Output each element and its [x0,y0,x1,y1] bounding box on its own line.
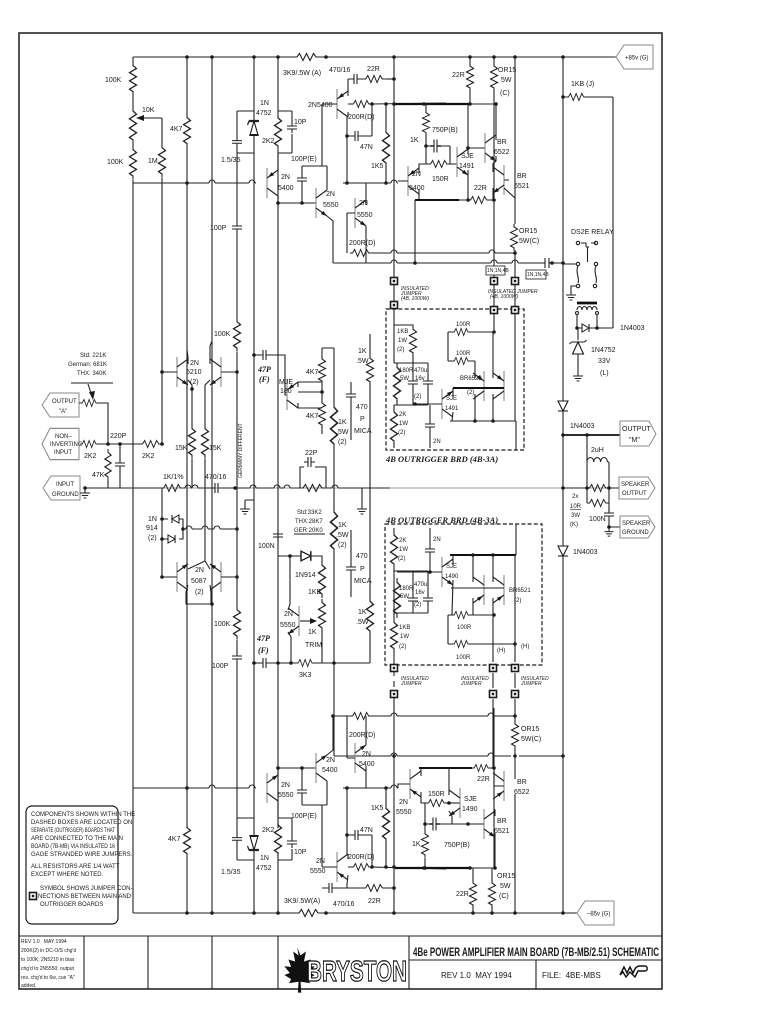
capacitor 470u 16v box1 a [408,377,418,388]
svg-text:5550: 5550 [357,212,373,219]
svg-text:GROUND: GROUND [52,492,79,498]
svg-text:1K: 1K [338,419,347,426]
svg-text:"M": "M" [629,437,640,444]
flag OUTPUT M [563,434,620,436]
resistor 1K .5W (2) lower x334 [331,507,338,554]
resistor 3K3 [296,660,315,667]
svg-text:470u: 470u [414,368,427,374]
drawing frame border [19,33,662,989]
svg-text:2K2: 2K2 [142,453,155,460]
trimpot 1K TRIM [319,599,326,631]
capacitor 100P upper mid [232,222,242,233]
svg-text:2K: 2K [399,538,406,544]
svg-text:100P(E): 100P(E) [291,156,317,163]
insulated jumper bottom b [492,644,494,768]
svg-text:2N: 2N [412,171,421,178]
svg-text:2N: 2N [195,567,204,574]
svg-text:200R(D): 200R(D) [349,732,375,739]
revision note text block [21,939,76,989]
svg-text:Std:33K2: Std:33K2 [297,510,322,516]
svg-text:200R(D): 200R(D) [348,114,374,121]
resistor 100R box2 b [452,641,471,648]
capacitor 2N box2 [425,545,435,556]
WP monogram logo [620,966,647,977]
svg-text:22P: 22P [305,450,318,457]
wire column x162 [161,118,163,577]
svg-text:BR6521: BR6521 [509,588,531,594]
resistor OR15 5W (C) first [493,57,495,104]
svg-text:MICA: MICA [354,578,372,585]
svg-text:2uH: 2uH [591,447,604,454]
transistor pair 2N5210 left [177,357,188,387]
svg-text:1K: 1K [358,609,367,616]
svg-text:4B OUTRIGGER BRD (4B-3A): 4B OUTRIGGER BRD (4B-3A) [385,515,498,525]
svg-text:1W: 1W [400,634,409,640]
svg-text:(C): (C) [500,90,510,97]
resistor 180R 5W box1 [394,325,428,363]
-85v bottom bus [133,912,577,914]
svg-text:P: P [360,566,365,573]
capacitor 47N [351,131,362,141]
rail to speaker rail [563,487,619,489]
transistor SJE1491 box1 [442,389,453,419]
capacitor 470/16 inline [211,483,222,493]
svg-text:5W(C): 5W(C) [519,238,539,245]
components note box [26,806,118,924]
capacitor 100N mid [273,530,283,541]
svg-text:P: P [360,416,365,423]
wire column x187 [186,57,188,913]
svg-text:470/16: 470/16 [205,474,227,481]
svg-text:2N: 2N [399,799,408,806]
bus junction dots bottom [185,911,189,915]
wire collector down + rail [278,196,316,203]
resistor 2K2 input [80,441,99,448]
svg-text:2N: 2N [362,751,371,758]
transistor Q 2N5400 right npn [408,166,419,196]
ground below zener [573,372,583,381]
svg-text:22R: 22R [368,898,381,905]
svg-text:BR: BR [497,818,507,825]
capacitor 470P MICA lower [346,563,356,574]
loop wire 1.5/35 zener box [237,111,254,160]
resistor 1KB 1W (2) box2 [393,613,395,668]
capacitor 47P (F) upper [259,350,270,360]
svg-text:OR15: OR15 [498,67,516,74]
svg-text:.5W: .5W [356,358,369,365]
svg-text:200K(2) in DC-O/S chg'd: 200K(2) in DC-O/S chg'd [21,948,76,954]
svg-text:5400: 5400 [409,185,425,192]
zener diode 1N4752 top [248,121,260,135]
svg-text:(2): (2) [467,390,474,396]
svg-text:(2): (2) [414,394,421,400]
wire emitter down [277,801,279,818]
svg-text:2N: 2N [284,611,293,618]
svg-text:2K: 2K [399,412,406,418]
capacitor 1.5/35 bottom [232,834,242,844]
ground speaker [605,528,614,536]
relay coil [577,302,597,305]
svg-text:OUTPUT: OUTPUT [622,426,652,433]
transistor Q 2N5400 bottom second [355,743,366,773]
svg-text:1.5/35: 1.5/35 [221,157,241,164]
svg-text:47N: 47N [360,827,373,834]
svg-text:220P: 220P [110,433,127,440]
svg-text:4K7: 4K7 [168,836,181,843]
ground mid b [357,505,367,514]
svg-text:(2): (2) [338,542,347,549]
svg-text:100K: 100K [214,621,231,628]
wire column x236 [236,153,238,818]
svg-text:1N4003: 1N4003 [570,423,595,430]
loop wires bottom zener box [237,811,254,860]
svg-text:10R: 10R [570,504,582,510]
svg-text:180R: 180R [399,586,414,592]
resistor 180R 5W box2 [394,578,401,618]
transistor Q 2N5550 first npn [316,188,327,218]
svg-text:INPUT: INPUT [54,450,72,456]
svg-text:10K: 10K [142,107,155,114]
relay rail [333,260,563,263]
resistor 4K7 bottom [184,824,191,857]
svg-text:5W: 5W [500,883,511,890]
svg-text:5087: 5087 [191,578,207,585]
resistor 1M [159,144,166,178]
svg-text:47P: 47P [257,365,271,374]
resistor 100R box2 a [452,612,471,619]
svg-text:180R: 180R [399,368,414,374]
svg-text:(2): (2) [399,644,406,650]
trimpot 10K [130,107,137,144]
svg-text:INPUT: INPUT [56,482,74,488]
thick base wire [453,387,504,389]
svg-text:4K7: 4K7 [170,126,183,133]
svg-text:470: 470 [356,404,368,411]
resistor 100K mid [234,318,241,352]
svg-text:3K9/.5W (A): 3K9/.5W (A) [283,70,321,77]
svg-text:BOARD (7B-MB) VIA INSULATED 16: BOARD (7B-MB) VIA INSULATED 16 [31,844,116,850]
base wires 2N5210 [162,371,237,373]
svg-text:5W(C): 5W(C) [521,736,541,743]
svg-text:1N: 1N [260,100,269,107]
svg-text:GROUND: GROUND [622,530,649,536]
title block top rule [19,935,662,937]
svg-text:10P: 10P [294,119,307,126]
svg-text:16v: 16v [415,376,425,382]
svg-text:3W: 3W [571,513,580,519]
tiny note box c [526,270,546,279]
svg-text:OUTPUT: OUTPUT [622,491,647,497]
dashed box outrigger board 1 [386,309,524,450]
resistor 15K right [202,425,209,459]
svg-text:SJE: SJE [446,396,457,402]
wire column x133 [132,57,134,913]
title block cell dividers [84,936,662,989]
svg-text:2N: 2N [281,782,290,789]
insulated jumper top a [393,263,395,325]
emitter node wires [188,380,210,425]
transistor Q BR6521 [493,165,504,195]
svg-text:6521: 6521 [514,183,530,190]
svg-text:BR: BR [517,173,527,180]
resistor OR15 5W(C) lower mid [512,721,519,749]
svg-text:BR: BR [517,779,527,786]
svg-text:100P: 100P [210,225,227,232]
dashed box outrigger board 2 [385,524,542,665]
svg-text:1KB: 1KB [397,329,408,335]
resistor 4K7 top [184,114,191,147]
svg-text:THX: 340K: THX: 340K [77,371,106,377]
svg-text:100N: 100N [589,516,606,523]
svg-text:2N5400: 2N5400 [308,102,333,109]
transistor SJE1490 box2 [442,557,453,587]
svg-text:(2): (2) [195,589,204,596]
svg-text:1K5: 1K5 [371,163,384,170]
svg-text:470/16: 470/16 [333,901,355,908]
svg-text:(L): (L) [600,370,609,377]
resistor 150R bottom [426,800,447,807]
svg-text:100K: 100K [107,159,124,166]
svg-text:1N914: 1N914 [295,572,316,579]
svg-text:SPEAKER: SPEAKER [622,521,651,527]
svg-text:5210: 5210 [186,369,202,376]
svg-text:150R: 150R [428,791,445,798]
transistor Q 2N5400 top pnp [337,89,348,119]
wire column x334 [333,348,335,756]
svg-text:5550: 5550 [323,202,339,209]
svg-text:2N: 2N [326,191,335,198]
svg-text:4752: 4752 [256,865,272,872]
svg-text:(F): (F) [258,646,269,655]
wire column x394 bottom [393,698,395,913]
svg-text:470u: 470u [414,582,427,588]
svg-text:4K7: 4K7 [306,413,319,420]
svg-text:470: 470 [356,553,368,560]
transistor Q BR6521 bottom [484,809,495,839]
svg-text:914: 914 [146,525,158,532]
svg-text:2N: 2N [433,439,441,445]
svg-text:5400: 5400 [359,761,375,768]
svg-text:SJE: SJE [464,796,477,803]
capacitor 47N bottom [351,830,362,840]
svg-text:6521: 6521 [494,828,510,835]
svg-text:to 100K; 2N5210 in bias: to 100K; 2N5210 in bias [21,957,75,963]
svg-text:German: 681K: German: 681K [68,362,107,368]
svg-text:(2): (2) [414,602,421,608]
svg-text:OUTPUT: OUTPUT [52,399,77,405]
svg-text:DS2E RELAY: DS2E RELAY [571,229,614,236]
svg-text:Std: 221K: Std: 221K [80,353,106,359]
svg-text:2N: 2N [359,200,368,207]
svg-text:1K/1%: 1K/1% [163,474,184,481]
svg-text:COMPONENTS SHOWN WITHIN THE: COMPONENTS SHOWN WITHIN THE [31,812,135,818]
svg-text:added.: added. [21,983,36,989]
svg-text:JUMPER: JUMPER [400,681,422,687]
wire column x254 [253,57,255,913]
output column x563 [562,98,564,913]
resistor 22R upper bottom [472,765,491,772]
svg-text:JUMPER: JUMPER [520,681,542,687]
insulated jumper top c [514,57,516,330]
svg-text:(4B, 1000W): (4B, 1000W) [490,294,518,300]
capacitor 470u 16v box2 a [408,594,418,605]
svg-text:200R(D): 200R(D) [348,854,374,861]
thick rail y104 [395,103,471,105]
transistor BR6522 (2) box1 pair [473,371,484,401]
resistor 1KB (J) [563,57,613,263]
transistor pair 2N5087 right [210,562,221,592]
svg-text:1N4003: 1N4003 [620,325,645,332]
svg-text:1491: 1491 [445,406,459,412]
transistor BR6521 (2) box2 pair [473,575,484,605]
svg-text:5400: 5400 [322,767,338,774]
resistor OR15 5W(C) second [511,224,518,251]
transistor Q SJE1490 [449,788,460,818]
thick rail y867 [395,867,471,869]
capacitor 1.5/35 [232,137,242,147]
resistor 200R(D) lower second inline [350,713,372,720]
resistor 1KB 1W (2) box1 [394,325,413,363]
svg-text:5W: 5W [501,77,512,84]
svg-text:6522: 6522 [514,789,530,796]
svg-text:100P: 100P [212,663,229,670]
flag -85v (G) [577,901,614,925]
ground input [80,489,90,498]
resistor 1K5 bottom [383,804,390,843]
svg-text:(H): (H) [521,644,529,650]
capacitor 470 P MICA upper [346,390,356,401]
svg-text:22R: 22R [474,185,487,192]
wire column x494 down [493,104,495,263]
rail mid y183 right [343,180,398,183]
capacitor 100P lower mid [232,652,242,663]
svg-text:1W: 1W [399,421,408,427]
svg-text:150R: 150R [432,176,449,183]
svg-text:2x: 2x [572,494,578,500]
resistor 1K .5W lower right [367,597,374,635]
svg-text:2N: 2N [281,174,290,181]
resistor 4K7 b [319,400,326,428]
svg-text:1490: 1490 [462,806,478,813]
resistor Std 33K2 inline rail [300,485,326,492]
svg-text:100K: 100K [214,331,231,338]
svg-text:15K: 15K [209,445,222,452]
svg-text:1K: 1K [358,348,367,355]
trimpot wiper arrow [140,117,162,119]
insulated jumper top b [493,263,495,330]
flag SPEAKER GROUND [620,516,655,538]
svg-text:10P: 10P [294,849,307,856]
resistor 1K/1% inline [161,485,184,492]
flag OUTPUT A [42,393,79,417]
svg-text:2N: 2N [433,537,441,543]
resistor 1K bottom [422,831,429,858]
svg-text:200R(D): 200R(D) [349,240,375,247]
loop wire 10P bottom [278,818,292,860]
capacitor 470u 16v box2 b [423,594,433,605]
svg-text:chg'd to 2N5550; output: chg'd to 2N5550; output [21,966,75,972]
svg-text:1N: 1N [148,516,157,523]
svg-text:5W: 5W [400,376,409,382]
svg-text:OUTRIGGER BOARDS: OUTRIGGER BOARDS [40,902,103,908]
svg-text:1K: 1K [338,522,347,529]
resistor 4K7 a [319,356,326,384]
svg-text:1W: 1W [399,547,408,553]
resistor 2x 10R 3W (K) a [587,485,609,492]
svg-text:100R: 100R [456,351,471,357]
svg-text:1N: 1N [260,855,269,862]
svg-text:22R: 22R [367,66,380,73]
svg-text:5550: 5550 [280,622,296,629]
resistor 2x 10R 3W (K) b [587,500,609,507]
svg-text:OR15: OR15 [521,726,539,733]
svg-text:(H): (H) [497,648,505,654]
svg-text:1N,1N,4B: 1N,1N,4B [527,272,549,278]
wire column x394 [393,57,395,263]
diode 1N914 mid [301,551,311,561]
svg-text:EXCEPT WHERE NOTED.: EXCEPT WHERE NOTED. [31,872,104,878]
svg-text:22R: 22R [456,891,469,898]
wire collector up + rail [278,768,316,775]
svg-text:FILE: 4BE-MBS: FILE: 4BE-MBS [542,971,601,980]
resistor 100K lower [130,146,137,180]
svg-text:4Be POWER AMPLIFIER MAIN BOARD: 4Be POWER AMPLIFIER MAIN BOARD (7B-MB/2.… [413,947,659,959]
transistor Q 2N5550 bottom pnp [337,852,348,882]
svg-text:(2): (2) [398,430,405,436]
wire column x278 [277,57,279,913]
svg-text:180: 180 [280,388,292,395]
transistor Q SJE1491 [457,147,468,177]
svg-text:47P: 47P [256,634,270,643]
main ground rail [84,487,610,489]
svg-text:5550: 5550 [396,809,412,816]
resistor 100K upper [130,62,137,95]
Bryston maple leaf logo [284,947,314,992]
resistor 2K2 bottom [275,821,282,857]
capacitor 100P(E) bottom [297,786,307,797]
svg-text:2K2: 2K2 [262,827,275,834]
capacitor 10P bottom [287,837,297,848]
capacitor 2N box1 [425,420,435,431]
collector wires 2N5210 [187,341,212,364]
svg-text:NECTIONS BETWEEN MAIN AND: NECTIONS BETWEEN MAIN AND [38,894,132,900]
transistor Q 2N5550 pnp bottom-left [267,773,278,803]
svg-text:REV 1.0 MAY 1994: REV 1.0 MAY 1994 [441,971,512,980]
resistor output A [80,400,99,407]
diode 1N4003 relay [582,324,589,332]
svg-text:16v: 16v [415,590,425,596]
svg-text:"A": "A" [59,409,67,415]
svg-text:22R: 22R [452,72,465,79]
svg-text:22R: 22R [477,776,490,783]
diode 1N4003 lower [558,546,568,556]
insulated jumper bottom a [393,668,395,687]
svg-text:MICA: MICA [354,428,372,435]
svg-text:2K2: 2K2 [84,453,97,460]
resistor 1KB mid [319,561,326,598]
svg-text:750P(B): 750P(B) [444,842,470,849]
resistor 22R lower [468,197,490,204]
rail mid y788 right [343,785,398,788]
svg-text:4B OUTRIGGER BRD (4B-3A): 4B OUTRIGGER BRD (4B-3A) [385,454,498,464]
resistor 2K 1W (2) box1 [391,408,398,445]
ground mid a [240,505,250,514]
diode 1N4003 upper [558,401,568,411]
svg-text:ALL RESISTORS ARE 1/4 WATT: ALL RESISTORS ARE 1/4 WATT [31,864,120,870]
resistor 200R(D) second [350,250,372,257]
svg-text:.5W: .5W [336,429,349,436]
svg-text:(C): (C) [499,893,509,900]
